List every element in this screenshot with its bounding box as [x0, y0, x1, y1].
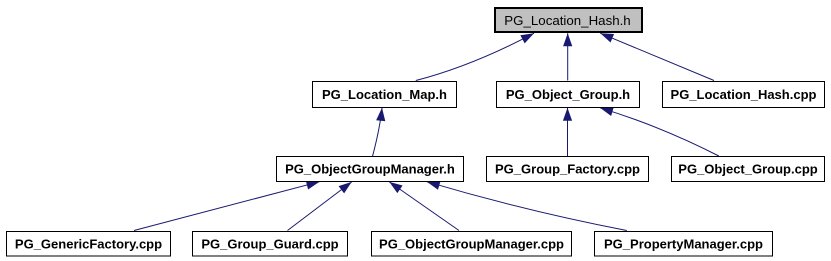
wire PG_ObjectGroupManager.h -> PG_Location_Map.h: [373, 108, 382, 156]
svg-text:PG_Group_Factory.cpp: PG_Group_Factory.cpp: [495, 162, 640, 177]
wire PG_GenericFactory.cpp -> PG_ObjectGroupManager.h: [134, 182, 320, 231]
wire PG_Group_Guard.cpp -> PG_ObjectGroupManager.h: [288, 182, 352, 231]
node PG_Object_Group.cpp: [672, 157, 825, 182]
node PG_ObjectGroupManager.cpp: [372, 232, 572, 257]
wire PG_Location_Map.h -> PG_Location_Hash.h: [416, 33, 534, 80]
node PG_ObjectGroupManager.h: [277, 157, 464, 182]
svg-text:PG_Group_Guard.cpp: PG_Group_Guard.cpp: [201, 236, 338, 251]
svg-text:PG_Object_Group.cpp: PG_Object_Group.cpp: [678, 162, 817, 177]
node PG_Location_Map.h: [313, 82, 457, 108]
svg-text:PG_ObjectGroupManager.h: PG_ObjectGroupManager.h: [285, 162, 455, 177]
node PG_Location_Hash.h (current file, grey): [495, 8, 642, 32]
svg-text:PG_Object_Group.h: PG_Object_Group.h: [506, 87, 630, 102]
node PG_Location_Hash.cpp: [663, 82, 825, 108]
wire PG_ObjectGroupManager.cpp -> PG_ObjectGroupManager.h: [389, 182, 459, 231]
node PG_PropertyManager.cpp: [595, 232, 773, 257]
node PG_Group_Factory.cpp: [487, 157, 649, 182]
node PG_GenericFactory.cpp: [7, 232, 171, 257]
wire PG_PropertyManager.cpp -> PG_ObjectGroupManager.h: [427, 182, 627, 231]
wire PG_Object_Group.h -> PG_Location_Hash.h: [567, 33, 569, 80]
wire PG_Location_Hash.cpp -> PG_Location_Hash.h: [600, 33, 714, 80]
svg-text:PG_ObjectGroupManager.cpp: PG_ObjectGroupManager.cpp: [379, 236, 564, 251]
svg-text:PG_Location_Hash.h: PG_Location_Hash.h: [504, 13, 630, 28]
svg-text:PG_Location_Map.h: PG_Location_Map.h: [322, 87, 447, 102]
wire PG_Group_Factory.cpp -> PG_Object_Group.h: [567, 108, 569, 156]
svg-text:PG_GenericFactory.cpp: PG_GenericFactory.cpp: [15, 236, 162, 251]
svg-text:PG_PropertyManager.cpp: PG_PropertyManager.cpp: [604, 236, 763, 251]
wire PG_Object_Group.cpp -> PG_Object_Group.h: [600, 108, 719, 156]
node PG_Group_Guard.cpp: [193, 232, 348, 257]
svg-text:PG_Location_Hash.cpp: PG_Location_Hash.cpp: [671, 87, 817, 102]
node PG_Object_Group.h: [497, 82, 640, 108]
